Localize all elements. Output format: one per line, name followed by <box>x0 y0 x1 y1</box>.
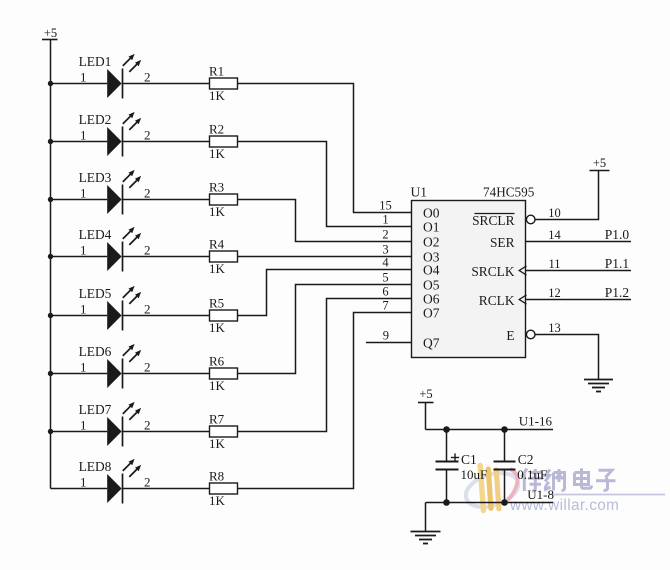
value 1K of R3 <box>209 204 226 219</box>
svg-text:10uF: 10uF <box>461 467 488 482</box>
wire GND rail (U1-8) <box>426 502 554 504</box>
junction node rail/LED1 <box>48 81 53 86</box>
pin number 7 of U1 <box>382 299 388 313</box>
wire LED3 cathode to R3 <box>123 199 210 201</box>
clock arrow pin 11 <box>519 266 526 275</box>
svg-text:7: 7 <box>382 299 388 313</box>
pin number 6 of U1 <box>382 285 388 299</box>
inverter bubble pin 10 <box>526 215 535 224</box>
svg-text:1: 1 <box>80 302 87 317</box>
svg-text:R4: R4 <box>209 236 225 251</box>
value 1K of R1 <box>209 88 226 103</box>
junction node C2 bottom <box>501 499 508 506</box>
label R3 <box>209 179 224 194</box>
junction node C2 top <box>501 426 508 433</box>
wire +5 to VCC rail <box>425 403 427 430</box>
svg-text:2: 2 <box>144 186 151 201</box>
willar logo W bar 3 <box>496 470 499 509</box>
junction node rail/LED6 <box>48 371 53 376</box>
pin number 2 of LED7 <box>144 418 151 433</box>
pin number 10 <box>548 206 561 220</box>
svg-text:5: 5 <box>382 271 388 285</box>
svg-text:1K: 1K <box>209 204 226 219</box>
label C1 <box>461 452 477 467</box>
svg-text:U1-8: U1-8 <box>527 487 554 502</box>
label LED3 <box>79 170 112 185</box>
wire rail to LED6 anode <box>51 373 108 375</box>
watermark url www.willar.com <box>509 497 619 514</box>
svg-text:LED8: LED8 <box>79 459 112 474</box>
wire LED2 cathode to R2 <box>123 141 210 143</box>
resistor R4 <box>210 251 238 262</box>
watermark char 子 <box>596 470 616 490</box>
willar logo W bar 1 <box>480 466 483 511</box>
svg-text:4: 4 <box>382 256 389 270</box>
svg-text:10: 10 <box>548 206 561 220</box>
pin number 1 of LED6 <box>80 360 87 375</box>
watermark underline rule <box>552 494 665 496</box>
svg-text:1K: 1K <box>209 436 226 451</box>
label R2 <box>209 121 224 136</box>
svg-text:R2: R2 <box>209 121 224 136</box>
svg-text:14: 14 <box>548 228 561 242</box>
resistor R5 <box>210 310 238 321</box>
label R5 <box>209 295 224 310</box>
resistor R2 <box>210 136 238 147</box>
value 1K of R2 <box>209 146 226 161</box>
junction node rail/LED4 <box>48 254 53 259</box>
wire VCC rail (U1-16) <box>426 429 554 431</box>
wire rail to LED2 anode <box>51 141 108 143</box>
IC U1 74HC595 body <box>412 201 526 358</box>
ground symbol bottom <box>411 532 441 544</box>
power +5 symbol top-left <box>42 26 58 40</box>
wire R3 to U1 O2 pin 2 <box>238 200 412 242</box>
label R4 <box>209 236 225 251</box>
capacitor C1 (polarized) <box>436 430 460 503</box>
svg-text:P1.2: P1.2 <box>605 285 629 300</box>
svg-text:U1: U1 <box>411 184 428 199</box>
pin number 1 of LED8 <box>80 475 87 490</box>
U1 pin label O4 <box>423 262 440 277</box>
wire LED4 cathode to R4 <box>123 256 210 258</box>
junction node C1 bottom <box>443 499 450 506</box>
resistor R3 <box>210 194 238 205</box>
junction node rail/LED7 <box>48 429 53 434</box>
svg-text:1: 1 <box>80 70 87 85</box>
svg-text:1: 1 <box>80 360 87 375</box>
label C2 <box>518 452 534 467</box>
clock arrow pin 12 <box>519 295 526 304</box>
wire R4 to U1 O3 pin 3 <box>238 256 412 258</box>
pin number 14 <box>548 228 561 242</box>
value 1K of R4 <box>209 261 226 276</box>
U1 pin label SRCLR with overline <box>472 213 514 228</box>
watermark char 纳 <box>545 469 565 491</box>
svg-text:+5: +5 <box>593 156 606 170</box>
svg-text:1: 1 <box>80 128 87 143</box>
pin number 3 of U1 <box>382 243 388 257</box>
wire rail to LED5 anode <box>51 315 108 317</box>
wire GND rail to ground <box>425 503 427 532</box>
part number 74HC595 <box>483 184 535 199</box>
pin number 2 of LED4 <box>144 243 151 258</box>
svg-text:LED4: LED4 <box>79 227 112 242</box>
svg-text:1K: 1K <box>209 320 226 335</box>
svg-text:R5: R5 <box>209 295 224 310</box>
wire LED7 cathode to R7 <box>123 431 210 433</box>
svg-text:2: 2 <box>144 128 151 143</box>
svg-text:2: 2 <box>144 360 151 375</box>
U1 pin label Q7 <box>423 335 440 350</box>
pin number 2 of LED2 <box>144 128 151 143</box>
U1 pin label O1 <box>423 219 440 234</box>
svg-text:O6: O6 <box>423 291 440 306</box>
svg-text:LED2: LED2 <box>79 112 112 127</box>
wire R6 to U1 O5 pin 5 <box>238 285 412 374</box>
net label U1-16 <box>519 414 553 429</box>
svg-text:2: 2 <box>144 70 151 85</box>
pin number 2 of U1 <box>382 228 388 242</box>
pin number 1 of LED5 <box>80 302 87 317</box>
label LED8 <box>79 459 112 474</box>
U1 pin label O0 <box>423 205 440 220</box>
svg-text:0.1uF: 0.1uF <box>517 467 547 482</box>
svg-text:3: 3 <box>382 243 388 257</box>
pin number 9 of U1 and Q7 stub <box>366 329 412 343</box>
svg-text:12: 12 <box>548 286 561 300</box>
LED1 diode symbol with light arrows <box>107 54 141 99</box>
U1 pin label RCLK <box>479 293 515 308</box>
svg-text:2: 2 <box>144 418 151 433</box>
svg-text:R6: R6 <box>209 353 225 368</box>
wire LED5 cathode to R5 <box>123 315 210 317</box>
wire rail to LED1 anode <box>51 83 108 85</box>
pin number 1 of LED7 <box>80 418 87 433</box>
label LED5 <box>79 286 112 301</box>
svg-text:LED3: LED3 <box>79 170 112 185</box>
U1 pin label O2 <box>423 234 440 249</box>
svg-text:SRCLK: SRCLK <box>471 264 514 279</box>
svg-text:O5: O5 <box>423 277 440 292</box>
power +5 symbol right <box>590 156 610 171</box>
watermark swoosh pink segment <box>509 470 518 500</box>
svg-text:C1: C1 <box>461 452 477 467</box>
svg-text:O0: O0 <box>423 205 440 220</box>
pin number 2 of LED8 <box>144 475 151 490</box>
pin number 15 of U1 <box>379 199 392 213</box>
svg-text:+5: +5 <box>419 387 432 401</box>
svg-text:2: 2 <box>382 228 388 242</box>
power +5 symbol bottom <box>418 387 434 403</box>
label R8 <box>209 468 224 483</box>
label R6 <box>209 353 225 368</box>
pin number 2 of LED1 <box>144 70 151 85</box>
svg-text:www.willar.com: www.willar.com <box>509 497 619 514</box>
label LED2 <box>79 112 112 127</box>
LED8 diode symbol with light arrows <box>107 459 141 504</box>
U1 pin label SER <box>490 235 515 250</box>
resistor R7 <box>210 426 238 437</box>
svg-text:LED6: LED6 <box>79 344 112 359</box>
net label U1-8 <box>527 487 554 502</box>
wire rail to LED8 anode <box>51 488 108 490</box>
svg-text:6: 6 <box>382 285 388 299</box>
svg-text:U1-16: U1-16 <box>519 414 553 429</box>
svg-text:R1: R1 <box>209 63 224 78</box>
LED2 diode symbol with light arrows <box>107 112 141 157</box>
svg-text:LED7: LED7 <box>79 402 112 417</box>
net label P1.1 <box>605 256 629 271</box>
resistor R8 <box>210 483 238 494</box>
svg-text:R8: R8 <box>209 468 224 483</box>
pin number 12 <box>548 286 561 300</box>
wire R2 to U1 O1 pin 1 <box>238 142 412 227</box>
svg-text:1: 1 <box>80 418 87 433</box>
svg-text:C2: C2 <box>518 452 534 467</box>
wire LED1 cathode to R1 <box>123 83 210 85</box>
pin number 4 of U1 <box>382 256 389 270</box>
svg-text:11: 11 <box>548 257 560 271</box>
svg-text:13: 13 <box>548 321 561 335</box>
svg-text:P1.1: P1.1 <box>605 256 629 271</box>
svg-text:9: 9 <box>383 329 389 343</box>
pin number 1 of LED4 <box>80 243 87 258</box>
svg-text:P1.0: P1.0 <box>605 227 630 242</box>
svg-text:RCLK: RCLK <box>479 293 515 308</box>
pin number 5 of U1 <box>382 271 388 285</box>
watermark char 电 <box>575 468 592 488</box>
svg-text:2: 2 <box>144 475 151 490</box>
junction node rail/LED2 <box>48 139 53 144</box>
wire pin 10 to +5 <box>535 171 599 220</box>
wire pin 13 to ground <box>535 335 599 380</box>
svg-text:1K: 1K <box>209 493 226 508</box>
wire rail to LED3 anode <box>51 199 108 201</box>
label LED6 <box>79 344 112 359</box>
pin number 13 <box>548 321 561 335</box>
pin number 2 of LED6 <box>144 360 151 375</box>
wire R7 to U1 O6 pin 6 <box>238 299 412 432</box>
svg-text:Q7: Q7 <box>423 335 440 350</box>
LED6 diode symbol with light arrows <box>107 344 141 389</box>
svg-text:1: 1 <box>80 243 87 258</box>
reference designator U1 <box>411 184 428 199</box>
svg-text:1: 1 <box>80 186 87 201</box>
wire +5 supply rail vertical <box>50 40 52 489</box>
label LED7 <box>79 402 112 417</box>
svg-text:1K: 1K <box>209 88 226 103</box>
wire R5 to U1 O4 pin 4 <box>238 270 412 316</box>
pin number 11 <box>548 257 560 271</box>
ground symbol right <box>584 380 613 392</box>
value 1K of R7 <box>209 436 226 451</box>
value 1K of R8 <box>209 493 226 508</box>
svg-text:SER: SER <box>490 235 515 250</box>
label R7 <box>209 411 225 426</box>
inverter bubble pin 13 <box>526 330 535 339</box>
junction node C1 top <box>443 426 450 433</box>
willar logo W bar 2 <box>488 469 491 508</box>
svg-text:2: 2 <box>144 302 151 317</box>
svg-text:R7: R7 <box>209 411 225 426</box>
svg-text:1K: 1K <box>209 146 226 161</box>
svg-text:1: 1 <box>382 213 388 227</box>
pin number 2 of LED3 <box>144 186 151 201</box>
svg-text:R3: R3 <box>209 179 224 194</box>
resistor R1 <box>210 78 238 89</box>
label LED1 <box>79 54 112 69</box>
svg-text:E: E <box>506 328 514 343</box>
LED4 diode symbol with light arrows <box>107 227 141 272</box>
label R1 <box>209 63 224 78</box>
U1 pin label SRCLK <box>471 264 514 279</box>
svg-text:1K: 1K <box>209 261 226 276</box>
wire LED8 cathode to R8 <box>123 488 210 490</box>
wire LED6 cathode to R6 <box>123 373 210 375</box>
label LED4 <box>79 227 112 242</box>
svg-text:2: 2 <box>144 243 151 258</box>
wire pin 12 to P1.2 <box>526 299 632 301</box>
LED5 diode symbol with light arrows <box>107 286 141 331</box>
junction node rail/LED5 <box>48 313 53 318</box>
capacitor C2 <box>494 430 516 503</box>
svg-text:LED5: LED5 <box>79 286 112 301</box>
svg-text:O4: O4 <box>423 262 440 277</box>
junction node rail/LED3 <box>48 197 53 202</box>
U1 pin label O7 <box>423 305 440 320</box>
U1 pin label O3 <box>423 249 440 264</box>
value 10uF <box>461 467 488 482</box>
pin number 1 of LED3 <box>80 186 87 201</box>
wire pin 14 to P1.0 <box>526 241 632 243</box>
svg-text:O7: O7 <box>423 305 440 320</box>
svg-text:+5: +5 <box>44 26 57 40</box>
pin number 1 of U1 <box>382 213 388 227</box>
svg-text:O1: O1 <box>423 219 440 234</box>
wire R8 to U1 O7 pin 7 <box>238 313 412 489</box>
wire pin 11 to P1.1 <box>526 270 632 272</box>
svg-text:15: 15 <box>379 199 392 213</box>
svg-text:SRCLR: SRCLR <box>472 213 514 228</box>
U1 pin label E <box>506 328 514 343</box>
svg-text:1: 1 <box>80 475 87 490</box>
LED3 diode symbol with light arrows <box>107 170 141 215</box>
resistor R6 <box>210 368 238 379</box>
wire rail to LED7 anode <box>51 431 108 433</box>
net label P1.0 <box>605 227 630 242</box>
wire R1 to U1 O0 pin 15 <box>238 84 412 213</box>
pin number 2 of LED5 <box>144 302 151 317</box>
pin number 1 of LED1 <box>80 70 87 85</box>
U1 pin label O6 <box>423 291 440 306</box>
pin number 1 of LED2 <box>80 128 87 143</box>
value 0.1uF <box>517 467 547 482</box>
U1 pin label O5 <box>423 277 440 292</box>
value 1K of R5 <box>209 320 226 335</box>
svg-text:O2: O2 <box>423 234 440 249</box>
watermark char 伟 <box>522 469 544 492</box>
value 1K of R6 <box>209 378 226 393</box>
watermark swoosh ellipse (willar logo ring) <box>462 467 523 513</box>
svg-text:LED1: LED1 <box>79 54 112 69</box>
wire rail to LED4 anode <box>51 256 108 258</box>
svg-text:1K: 1K <box>209 378 226 393</box>
svg-text:74HC595: 74HC595 <box>483 184 535 199</box>
LED7 diode symbol with light arrows <box>107 402 141 447</box>
net label P1.2 <box>605 285 629 300</box>
